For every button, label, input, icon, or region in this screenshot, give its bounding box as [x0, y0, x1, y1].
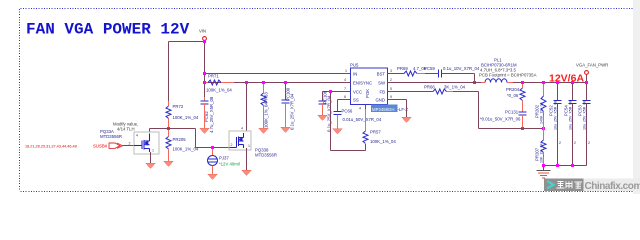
capacitor PC59	[424, 66, 480, 83]
svg-text:PR204: PR204	[506, 87, 520, 92]
svg-text:PC131: PC131	[505, 110, 519, 115]
svg-text:*0.01u_50V_X7R_06: *0.01u_50V_X7R_06	[480, 117, 521, 122]
svg-text:1: 1	[345, 69, 347, 73]
resistor PR69 (BST)	[395, 66, 439, 76]
svg-text:4: 4	[344, 78, 346, 82]
transistor PQ338	[229, 127, 251, 171]
jumper PJ37	[208, 149, 240, 174]
capacitor PC106 (VCC)	[319, 90, 344, 132]
svg-text:IN: IN	[353, 72, 357, 77]
svg-text:VCC: VCC	[353, 90, 362, 95]
resistor PR204 (snubber)	[506, 81, 525, 112]
svg-text:2: 2	[559, 141, 561, 145]
svg-text:SS: SS	[353, 98, 359, 103]
wire PQ338 drain column	[246, 84, 248, 131]
svg-text:MTD3556R: MTD3556R	[100, 134, 122, 139]
node junction PJ37 tap	[211, 146, 214, 149]
pin numbers output caps	[559, 141, 590, 145]
ground below PC66	[333, 129, 343, 135]
capacitor PC52	[549, 84, 562, 166]
capacitor PC66 (SS)	[334, 100, 382, 129]
svg-text:10u_25V_X5R_08: 10u_25V_X5R_08	[569, 101, 573, 130]
svg-text:POK: POK	[365, 89, 370, 98]
right gray strip	[633, 0, 640, 194]
svg-text:PR66: PR66	[424, 85, 435, 90]
svg-text:PU5: PU5	[350, 63, 359, 68]
net label VIN	[199, 29, 206, 41]
ground below PC62	[200, 128, 210, 134]
wire SW output	[395, 82, 486, 84]
svg-text:PR63: PR63	[264, 92, 269, 103]
svg-text:PCB Footprint = BCIHP0735A: PCB Footprint = BCIHP0735A	[479, 73, 537, 78]
svg-text:0.1u_25V_X7R_04: 0.1u_25V_X7R_04	[290, 93, 295, 130]
svg-text:SUSB#: SUSB#	[93, 144, 108, 149]
svg-text:PJ37: PJ37	[219, 156, 229, 161]
svg-text:5: 5	[390, 87, 392, 91]
svg-text:*0_06: *0_06	[507, 93, 519, 98]
svg-text:100K_1%_04: 100K_1%_04	[264, 102, 269, 128]
resistor PR72	[166, 101, 199, 129]
ground below PU5 GND	[402, 117, 412, 123]
ground below PQ338 source	[242, 170, 252, 176]
svg-text:VIN: VIN	[199, 29, 206, 34]
svg-text:PR69: PR69	[397, 66, 408, 71]
svg-text:VGA_FAN_PWR: VGA_FAN_PWR	[576, 63, 608, 68]
wire ground net bottom right	[544, 165, 587, 167]
node junction PR72/PR205/PQ33A drain	[167, 127, 170, 130]
svg-text:1: 1	[152, 149, 154, 153]
svg-text:PR205: PR205	[173, 137, 187, 142]
svg-text:10u_25V_X5R_08: 10u_25V_X5R_08	[554, 101, 558, 130]
page border dotted	[20, 9, 634, 192]
wire VIN vertical	[169, 41, 351, 102]
wire SUSB# to gate	[123, 145, 135, 147]
ground below PR205	[164, 161, 174, 167]
svg-text:2: 2	[231, 143, 233, 147]
svg-text:1: 1	[248, 144, 250, 148]
svg-text:PC59: PC59	[424, 66, 435, 71]
svg-text:GND: GND	[375, 98, 385, 103]
svg-text:140K_1%_04: 140K_1%_04	[540, 102, 544, 124]
label PQ338	[255, 148, 277, 158]
svg-text:2: 2	[588, 141, 590, 145]
svg-text:100K_1%_04: 100K_1%_04	[206, 88, 232, 93]
svg-text:2: 2	[390, 78, 392, 82]
ground below PR63	[259, 128, 269, 134]
svg-text:FB: FB	[380, 90, 386, 95]
part number highlight MP2459GH-LF-Z	[371, 105, 408, 113]
label PQ33A	[100, 129, 122, 139]
ground below PC106	[318, 115, 328, 121]
capacitor PC53	[578, 84, 591, 166]
svg-text:SW: SW	[378, 81, 386, 86]
svg-text:*12V 40mil: *12V 40mil	[219, 162, 240, 167]
capacitor PC131	[480, 110, 527, 129]
op-amp / regulator IC PU5	[344, 63, 395, 110]
resistor PR71	[205, 74, 234, 93]
junction bootstrap/SW	[473, 81, 476, 84]
resistor PR207	[535, 129, 547, 166]
wire GND pin to ground	[395, 100, 407, 118]
svg-text:PR57: PR57	[370, 130, 381, 135]
junction EN wire	[203, 81, 206, 84]
svg-text:100K_1%_04: 100K_1%_04	[370, 139, 396, 144]
resistor PR66 (FB)	[395, 85, 466, 95]
junction VIN branch	[203, 40, 206, 43]
wire VCC branch down	[331, 92, 366, 151]
resistor PR202	[535, 84, 547, 129]
off-page connector arrow	[109, 143, 123, 148]
svg-text:FAN VGA POWER 12V: FAN VGA POWER 12V	[26, 21, 190, 39]
wire 12V rail	[513, 82, 587, 84]
inductor PL1	[479, 58, 537, 83]
svg-text:MP2459GH: MP2459GH	[372, 107, 394, 112]
junction dots 12V rail	[542, 81, 545, 84]
svg-text:100K_1%_04: 100K_1%_04	[173, 115, 199, 120]
svg-text:PC66: PC66	[342, 109, 353, 114]
svg-text:EN/SYNC: EN/SYNC	[353, 81, 372, 86]
svg-text:100K_1%_04: 100K_1%_04	[173, 147, 199, 152]
wire drain net PQ33A	[150, 129, 230, 148]
svg-text:7: 7	[344, 87, 346, 91]
ground below PJ37	[208, 174, 218, 180]
svg-text:4.7u_25V_X5R_08: 4.7u_25V_X5R_08	[209, 96, 214, 133]
watermark	[544, 179, 640, 193]
svg-text:12V/6A: 12V/6A	[549, 73, 584, 85]
resistor PR57 (POK)	[359, 105, 396, 145]
resistor PR63	[261, 81, 269, 128]
svg-text:Chinafix.com: Chinafix.com	[585, 181, 640, 192]
svg-text:2: 2	[129, 142, 131, 146]
resistor PR205	[166, 130, 199, 161]
note modify value	[113, 122, 138, 132]
svg-text:PR71: PR71	[208, 74, 219, 79]
svg-text:4: 4	[359, 107, 361, 111]
svg-text:10K_1%_04: 10K_1%_04	[540, 143, 544, 163]
ground below PQ33A source	[146, 163, 156, 169]
svg-text:0.1u_10V_X7R_04: 0.1u_10V_X7R_04	[443, 66, 480, 71]
junction IN wire	[203, 72, 206, 75]
capacitor PC54	[564, 84, 577, 166]
svg-text:4: 4	[136, 134, 138, 138]
svg-text:3: 3	[390, 69, 392, 73]
svg-text:PR72: PR72	[173, 104, 184, 109]
svg-text:2: 2	[574, 141, 576, 145]
svg-text:10u_25V_X5R_08: 10u_25V_X5R_08	[583, 101, 587, 130]
wire FB net	[453, 92, 544, 129]
svg-text:0.01u_50V_X7R_04: 0.01u_50V_X7R_04	[343, 117, 382, 122]
ground below PC100	[281, 127, 291, 133]
svg-text:MTD3556R: MTD3556R	[255, 153, 277, 158]
net label VGA_FAN_PWR	[576, 63, 608, 83]
transistor PQ33A	[129, 132, 160, 163]
capacitor PC100	[282, 81, 295, 130]
svg-text:6: 6	[344, 95, 346, 99]
capacitor PC62	[201, 96, 215, 133]
svg-text:3K_1%_04: 3K_1%_04	[444, 85, 466, 90]
svg-text:4: 4	[241, 127, 243, 131]
svg-text:BST: BST	[377, 72, 386, 77]
svg-text:4/14 TLH: 4/14 TLH	[117, 127, 135, 132]
earth ground below PR207	[537, 166, 551, 179]
svg-text:9: 9	[390, 95, 392, 99]
svg-text:18,21,28,29,31,37,43,44,46,48: 18,21,28,29,31,37,43,44,46,48	[25, 145, 77, 149]
